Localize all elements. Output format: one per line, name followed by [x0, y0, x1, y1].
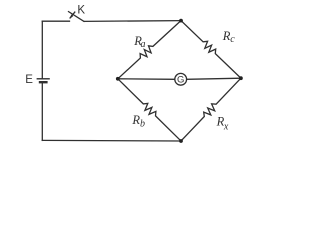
wire top-left horizontal to switch [42, 20, 69, 22]
svg-text:b: b [140, 118, 145, 129]
svg-text:c: c [230, 34, 235, 45]
switch K arrowhead [69, 14, 73, 19]
resistor Rc [181, 21, 241, 79]
svg-text:a: a [141, 39, 146, 50]
node left junction dot [116, 77, 120, 81]
node top junction dot [179, 19, 183, 23]
resistor Ra [118, 21, 181, 79]
switch K blade [69, 12, 85, 22]
battery E short plate [39, 81, 48, 83]
svg-text:x: x [223, 121, 229, 132]
svg-text:E: E [25, 74, 33, 86]
switch K arrow shaft [70, 12, 75, 18]
galvanometer G circle [175, 73, 187, 85]
resistor Rb [118, 79, 181, 141]
battery E long plate [37, 78, 50, 80]
wire switch to top node [84, 20, 181, 23]
svg-text:G: G [177, 74, 184, 85]
wire galvanometer left [118, 78, 175, 81]
wire left vertical lower [41, 82, 43, 140]
node bottom junction dot [179, 139, 183, 143]
wire galvanometer right [187, 78, 241, 79]
wire left vertical upper [41, 21, 43, 79]
svg-text:K: K [77, 5, 85, 17]
resistor Rx [181, 78, 241, 141]
wire bottom horizontal [42, 139, 181, 142]
node right junction dot [239, 76, 243, 80]
